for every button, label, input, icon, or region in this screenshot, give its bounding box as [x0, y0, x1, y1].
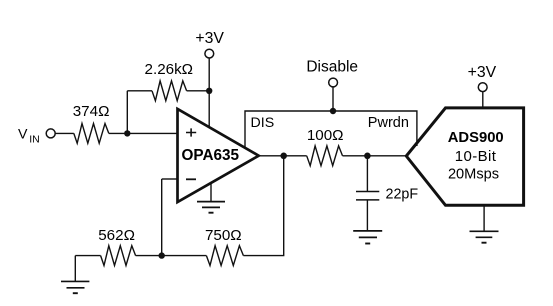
svg-text:100Ω: 100Ω [307, 127, 344, 144]
svg-text:10-Bit: 10-Bit [455, 148, 497, 165]
label +3V opamp supply [195, 30, 224, 47]
wire R562 to node C [136, 255, 207, 257]
label ADS900 [448, 130, 504, 146]
wire disable vertical [332, 87, 334, 111]
wire output opamp to ADS input [259, 155, 407, 157]
label 750ohm [205, 227, 242, 244]
label 2.26kohm [145, 61, 194, 78]
node C junction dot [159, 252, 165, 258]
svg-text:374Ω: 374Ω [73, 103, 110, 120]
terminal +3V ADS circle [478, 83, 487, 92]
node F disable junction dot [330, 108, 336, 114]
label 374ohm [73, 103, 110, 120]
label OPA635 [182, 147, 240, 164]
node E junction dot [364, 153, 371, 160]
wire ADS ground stem [483, 205, 485, 231]
svg-text:IN: IN [29, 134, 40, 146]
wire input to R 374 [55, 132, 73, 134]
ground ADS [470, 231, 499, 242]
svg-text:2.26kΩ: 2.26kΩ [145, 61, 194, 78]
ground opamp [197, 183, 225, 213]
ADC U2 ADS900 pentagon [406, 108, 523, 205]
wire +3V down to op-amp supply pin [208, 58, 210, 127]
plus input symbol [186, 128, 196, 136]
wire R750 to output vertical [243, 156, 283, 256]
svg-text:V: V [18, 127, 28, 143]
label 100ohm [307, 127, 344, 144]
label +3V ADS supply [468, 64, 497, 81]
label 20Msps [448, 167, 499, 183]
ground capacitor [353, 231, 382, 244]
svg-text:DIS: DIS [251, 115, 275, 131]
ground left [61, 256, 89, 294]
minus input symbol [186, 178, 196, 180]
node VIN label [18, 127, 40, 146]
wire DIS to Pwrdn routed over top [245, 111, 417, 148]
svg-text:750Ω: 750Ω [205, 227, 242, 244]
op-amp U1 OPA635 triangle [178, 109, 259, 202]
input terminal circle [46, 129, 55, 138]
svg-text:Disable: Disable [306, 59, 358, 76]
svg-text:Pwrdn: Pwrdn [368, 115, 409, 131]
svg-text:+3V: +3V [468, 64, 497, 81]
svg-text:OPA635: OPA635 [182, 147, 240, 164]
wire +3V ADS down [482, 92, 484, 108]
label Disable [306, 59, 358, 76]
node B junction dot supply/feedback [206, 88, 212, 94]
resistor 562ohm [101, 246, 136, 266]
resistor 2.26kohm [152, 81, 187, 101]
terminal Disable circle [329, 78, 338, 87]
node D output junction dot [280, 153, 287, 160]
wire ground to R562 [75, 255, 100, 257]
label 22pF [386, 187, 419, 203]
wire node E down to capacitor [366, 156, 368, 192]
terminal +3V opamp circle [205, 49, 214, 58]
resistor 100ohm [307, 146, 343, 166]
svg-text:20Msps: 20Msps [448, 167, 499, 183]
wire feedback left lead [127, 90, 152, 92]
label 10-Bit [455, 148, 497, 165]
wire feedback right lead [187, 90, 210, 92]
svg-text:22pF: 22pF [386, 187, 419, 203]
node A junction dot [124, 130, 130, 136]
wire capacitor to ground [366, 200, 368, 231]
svg-text:562Ω: 562Ω [98, 227, 135, 244]
wire node A up to feedback [126, 91, 128, 134]
label Pwrdn [368, 115, 409, 131]
label DIS [251, 115, 275, 131]
resistor 750ohm [206, 246, 243, 266]
wire R374 to op-amp +input [109, 132, 178, 134]
capacitor 22pF [356, 192, 379, 200]
label 562ohm [98, 227, 135, 244]
resistor 374ohm [74, 124, 109, 144]
wire feedback vertical down [161, 179, 163, 256]
svg-text:ADS900: ADS900 [448, 130, 504, 146]
svg-text:+3V: +3V [195, 30, 224, 47]
wire minus input [162, 178, 178, 180]
